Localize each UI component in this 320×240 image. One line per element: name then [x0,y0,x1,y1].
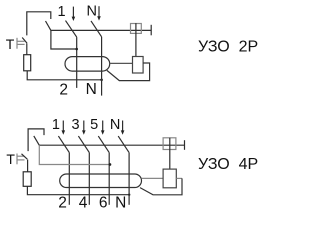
auxiliary contact blade (4P) [34,136,40,145]
handle end bar (2P) [150,25,152,36]
contact blade pole 1 (4P) [58,136,69,153]
terminal label 1 (top, 2P) [57,4,65,20]
wire resistor to N bottom (4P) [27,186,129,194]
terminal label 6 (bottom, 4P) [99,195,108,212]
trip mechanism box with cross (2P) [131,24,142,34]
wire T overhead to fixed contact (2P) [27,12,51,36]
resistor R test (4P) [23,172,31,187]
svg-text:T: T [6,151,15,167]
terminal label 2 (bottom, 4P) [58,195,67,212]
contact blade pole N (4P) [118,136,129,153]
current transformer torus (2P) [65,57,110,72]
test button actuator (2P) [17,38,25,49]
terminal arrow 5 (4P) [101,121,105,135]
relay (trip coil) box (4P) [163,169,176,188]
svg-text:3: 3 [72,117,80,133]
test button contact blade (4P) [22,154,28,159]
terminal label N (top, 4P) [110,117,120,133]
handle end bar (4P) [184,140,186,150]
test button actuator (4P) [17,154,25,165]
resistor R test (2P) [24,55,31,71]
auxiliary contact blade (2P) [46,21,51,30]
wire T overhead to fixed contact (4P) [28,129,44,151]
terminal label N (bottom, 2P) [86,81,97,98]
test button T label (4P) [6,151,15,167]
svg-text:1: 1 [57,4,65,20]
svg-text:N: N [86,81,97,98]
svg-text:1: 1 [52,117,60,133]
wire relay right stub (4P) [176,177,182,179]
wire mechanism to relay (4P) [169,138,171,169]
conductor pole 3 (4P) [88,153,90,205]
svg-text:УЗО 2Р: УЗО 2Р [198,39,258,56]
wire aux contact to pole 5 junction (4P) [39,145,110,164]
wire mechanism to relay (2P) [135,23,137,56]
svg-text:N: N [87,4,97,20]
junction on pole 5 conductor (4P) [109,163,112,166]
terminal arrow N (2P) [97,6,101,20]
contact blade pole 3 (4P) [78,136,89,153]
conductor pole N (2P) [101,37,103,96]
wire CT secondary loop (2P) [107,63,150,81]
trip mechanism box with cross (4P) [163,138,176,150]
svg-text:6: 6 [99,195,108,212]
conductor pole N (4P) [128,153,130,205]
contact blade pole 1 (2P) [66,21,77,37]
contact blade pole 5 (4P) [98,136,109,153]
contact blade pole N (2P) [91,21,102,37]
terminal label 3 (top, 4P) [72,117,80,133]
test button contact blade (2P) [22,38,27,44]
svg-text:5: 5 [90,117,98,133]
terminal arrow N (4P) [121,121,125,135]
wire resistor to N bottom (2P) [27,71,101,80]
terminal label 4 (bottom, 4P) [79,195,88,212]
terminal arrow 1 (2P) [72,7,76,21]
terminal label 2 (bottom, 2P) [59,81,68,98]
terminal arrow 3 (4P) [82,121,86,135]
svg-text:2: 2 [59,81,68,98]
wire CT secondary loop (4P) [140,178,182,194]
mechanism linkage bus (2P) [51,29,151,31]
conductor pole 5 (4P) [108,153,110,205]
terminal label 1 (top, 4P) [52,117,60,133]
junction on N conductor (2P) [100,79,103,82]
wire CT to relay left (4P) [142,177,164,179]
conductor pole 1 (2P) [76,37,78,88]
conductor pole 1 (4P) [68,153,70,205]
svg-text:N: N [110,117,120,133]
svg-text:T: T [6,36,15,52]
junction on pole 1 conductor (2P) [75,48,78,51]
terminal label N (bottom, 4P) [115,195,126,212]
terminal label 5 (top, 4P) [90,117,98,133]
junction on N conductor (4P) [128,194,130,196]
relay (trip coil) box (2P) [133,57,144,74]
wire button to resistor (4P) [27,160,29,172]
svg-text:УЗО 4Р: УЗО 4Р [198,156,258,173]
wire CT to relay left (2P) [110,62,133,64]
wire aux contact to pole 1 junction (2P) [51,30,77,49]
terminal arrow 1 (4P) [62,121,66,135]
svg-text:4: 4 [79,195,88,212]
mechanism linkage bus (4P) [39,144,184,146]
svg-text:N: N [115,195,126,212]
current transformer torus (4P) [60,174,142,188]
terminal label N (top, 2P) [87,4,97,20]
wire button to resistor (2P) [26,43,28,54]
svg-text:2: 2 [58,195,67,212]
test button T label (2P) [6,36,15,52]
